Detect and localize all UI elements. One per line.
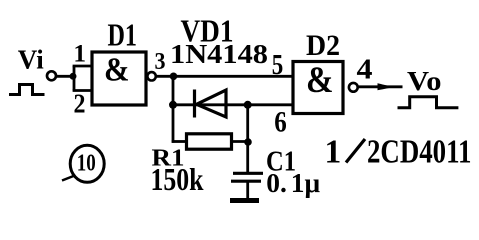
wire right vertical (246, 105, 249, 173)
wire diode row to pin6 (173, 103, 293, 106)
node diode right junction (244, 101, 252, 109)
svg-text:4: 4 (357, 55, 373, 86)
svg-text:5: 5 (272, 50, 284, 81)
NAND gate D1 body (92, 52, 146, 105)
node input junction (70, 73, 77, 80)
capacitor C1 bottom plate (231, 180, 261, 183)
node pin3 junction (170, 73, 178, 81)
D1 output bubble pin 3 (147, 72, 155, 80)
svg-text:10: 10 (77, 150, 96, 176)
figure number circle tail (62, 176, 74, 181)
svg-text:D2: D2 (306, 29, 340, 62)
svg-text:Vi: Vi (18, 45, 44, 75)
D2 output bubble pin 4 (349, 83, 358, 92)
wire pin4 to Vo (358, 85, 403, 88)
figure number circle (70, 145, 104, 182)
svg-text:D1: D1 (108, 18, 138, 53)
wire resistor left lead (172, 140, 187, 143)
svg-text:&: & (306, 60, 334, 101)
svg-text:1μ: 1μ (291, 167, 321, 198)
svg-text:150k: 150k (151, 161, 204, 197)
output pulse waveform (398, 97, 459, 108)
wire input to junction (56, 75, 74, 78)
diode VD1 cathode bar (193, 90, 196, 118)
svg-text:2: 2 (74, 89, 86, 119)
svg-text:6: 6 (274, 106, 287, 139)
input terminal circle (47, 71, 56, 80)
svg-text:Vo: Vo (407, 65, 442, 96)
svg-text:&: & (104, 52, 130, 89)
svg-text:1N4148: 1N4148 (170, 38, 268, 69)
wire pin 2 stub (73, 89, 93, 92)
svg-text:1: 1 (325, 134, 342, 171)
label CD4011 slash (346, 139, 365, 163)
node diode left junction (169, 101, 177, 109)
capacitor C1 top plate (233, 172, 263, 175)
node R1 C1 junction (244, 138, 252, 146)
wire top rail pin3 to pin5 (156, 75, 293, 78)
wire left vertical (172, 76, 175, 143)
NAND gate D2 body (293, 62, 343, 114)
wire resistor right lead (232, 140, 250, 143)
svg-text:3: 3 (155, 49, 166, 75)
resistor R1 body (187, 134, 232, 149)
ground bar (230, 198, 259, 203)
svg-text:0.: 0. (266, 167, 287, 198)
input pulse waveform (9, 85, 45, 95)
svg-text:1: 1 (73, 40, 86, 68)
diode VD1 triangle (197, 90, 227, 117)
wire capacitor bottom lead (246, 181, 249, 199)
svg-text:2CD4011: 2CD4011 (367, 134, 472, 171)
wire pin 1 stub (73, 65, 93, 68)
arrowhead on output wire (378, 83, 395, 90)
wire input split vertical bar (73, 66, 76, 91)
